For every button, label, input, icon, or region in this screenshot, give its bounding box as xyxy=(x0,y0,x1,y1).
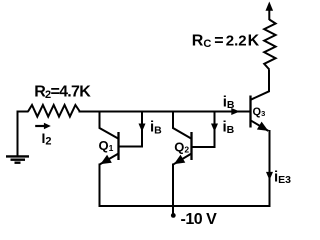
transistor Q2 xyxy=(190,132,192,160)
wire bottom rail xyxy=(99,205,271,207)
wire Q2 collector drop xyxy=(173,112,192,140)
arrowhead Q2 emitter xyxy=(174,155,185,164)
node -10V dot xyxy=(171,213,176,218)
svg-text:RC=2.2K: RC=2.2K xyxy=(192,32,260,50)
resistor R2 xyxy=(28,105,80,117)
wire I2 arrow shaft xyxy=(35,125,45,127)
arrowhead supply up xyxy=(266,2,274,11)
transistor Q3 xyxy=(249,96,251,128)
wire to R2 xyxy=(17,111,29,113)
wire Q3 emitter vertical xyxy=(269,130,271,207)
wire Q1 emitter diagonal xyxy=(100,154,119,165)
arrowhead iE3 xyxy=(266,172,273,180)
transistor Q1 xyxy=(117,132,119,160)
wire top rail xyxy=(79,111,250,113)
arrowhead Q1 emitter xyxy=(100,155,111,164)
ground xyxy=(6,156,29,162)
svg-text:-10 V: -10 V xyxy=(181,211,218,228)
wire Q3 emitter diagonal xyxy=(251,120,269,131)
svg-text:R2=4.7K: R2=4.7K xyxy=(34,83,91,101)
arrowhead iB Q1 xyxy=(139,124,146,132)
wire to supply arrow xyxy=(268,9,270,21)
wire Q3 collector diagonal xyxy=(251,70,270,100)
wire ground riser xyxy=(17,112,19,157)
arrowhead iB Q2 xyxy=(211,124,218,132)
arrowhead iB rail xyxy=(231,108,240,115)
arrowhead Q3 emitter xyxy=(257,122,268,131)
resistor RC xyxy=(264,20,275,70)
arrowhead I2 xyxy=(44,123,51,129)
wire Q2 emitter diagonal xyxy=(174,154,192,165)
wire Q1 collector drop xyxy=(100,112,120,140)
wire Q2 emitter vertical xyxy=(172,164,174,215)
wire Q1 base xyxy=(119,112,143,147)
wire Q1 emitter vertical xyxy=(99,164,101,208)
wire Q2 base xyxy=(192,112,215,148)
